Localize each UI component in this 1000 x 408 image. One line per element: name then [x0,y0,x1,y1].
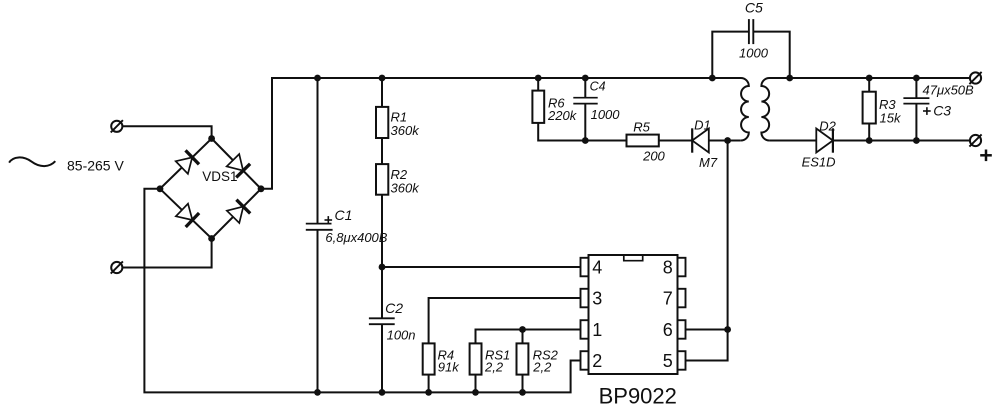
svg-text:200: 200 [642,149,665,164]
svg-text:47μx50В: 47μx50В [923,83,975,98]
svg-text:1000: 1000 [591,107,621,122]
svg-text:VDS1: VDS1 [202,169,237,184]
svg-text:3: 3 [592,289,602,309]
svg-text:6,8μx400В: 6,8μx400В [325,230,387,245]
svg-text:15k: 15k [880,111,902,126]
svg-text:1: 1 [592,320,602,340]
svg-text:91k: 91k [438,359,460,374]
svg-text:5: 5 [663,351,673,371]
svg-text:4: 4 [592,258,602,278]
svg-text:2,2: 2,2 [484,359,504,374]
svg-text:2: 2 [592,351,602,371]
svg-text:220k: 220k [547,108,578,123]
svg-text:M7: M7 [699,155,718,170]
svg-text:360k: 360k [391,123,421,138]
svg-text:D2: D2 [819,118,836,133]
svg-text:7: 7 [663,289,673,309]
svg-text:C4: C4 [590,80,606,94]
svg-text:D1: D1 [694,117,711,132]
svg-text:C2: C2 [385,300,403,316]
svg-text:85-265 V: 85-265 V [67,158,124,174]
svg-text:C5: C5 [745,0,763,16]
svg-text:8: 8 [663,258,673,278]
svg-text:2,2: 2,2 [532,359,552,374]
svg-text:100n: 100n [387,328,416,343]
svg-text:BP9022: BP9022 [599,384,677,408]
svg-text:360k: 360k [391,180,421,195]
svg-text:C3: C3 [933,102,951,118]
svg-text:R5: R5 [633,119,650,134]
svg-text:ES1D: ES1D [802,155,836,170]
svg-text:1000: 1000 [739,45,769,60]
svg-text:C1: C1 [335,207,353,223]
svg-text:6: 6 [663,320,673,340]
